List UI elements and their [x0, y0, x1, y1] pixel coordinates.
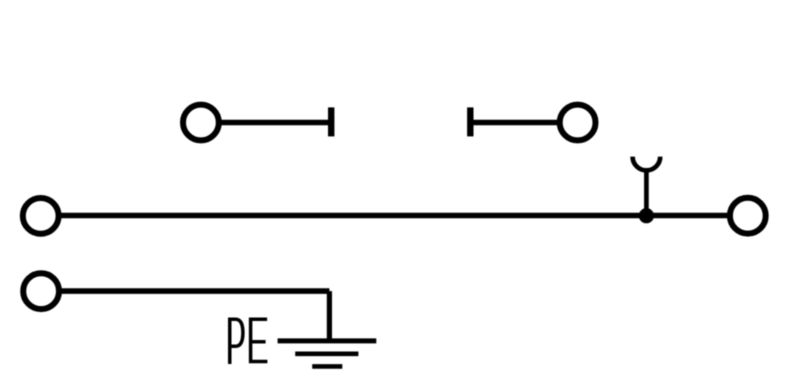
ground symbol bar 2	[295, 351, 358, 356]
terminal circle 2 (top-right)	[560, 105, 596, 141]
label PE : letter E	[251, 319, 268, 361]
ground symbol bar 1	[278, 338, 377, 343]
terminal circle 4 (middle-right)	[730, 198, 766, 234]
junction dot	[639, 208, 654, 223]
ground symbol bar 3	[312, 364, 342, 369]
terminal circle 1 (top-left)	[183, 105, 219, 141]
label PE : letter P	[230, 319, 243, 364]
wire top-left	[222, 120, 332, 126]
main through wire	[61, 213, 728, 219]
wire top-right	[470, 120, 557, 126]
test socket arc	[633, 157, 661, 171]
plug-in link tick right	[467, 107, 473, 136]
plug-in link tick left	[328, 107, 334, 136]
wire PE vertical lead to ground	[327, 291, 332, 342]
terminal circle 5 (bottom-left, PE)	[23, 273, 59, 309]
test socket stem	[644, 169, 649, 216]
wire PE horizontal	[61, 288, 329, 294]
terminal circle 3 (middle-left)	[23, 198, 59, 234]
